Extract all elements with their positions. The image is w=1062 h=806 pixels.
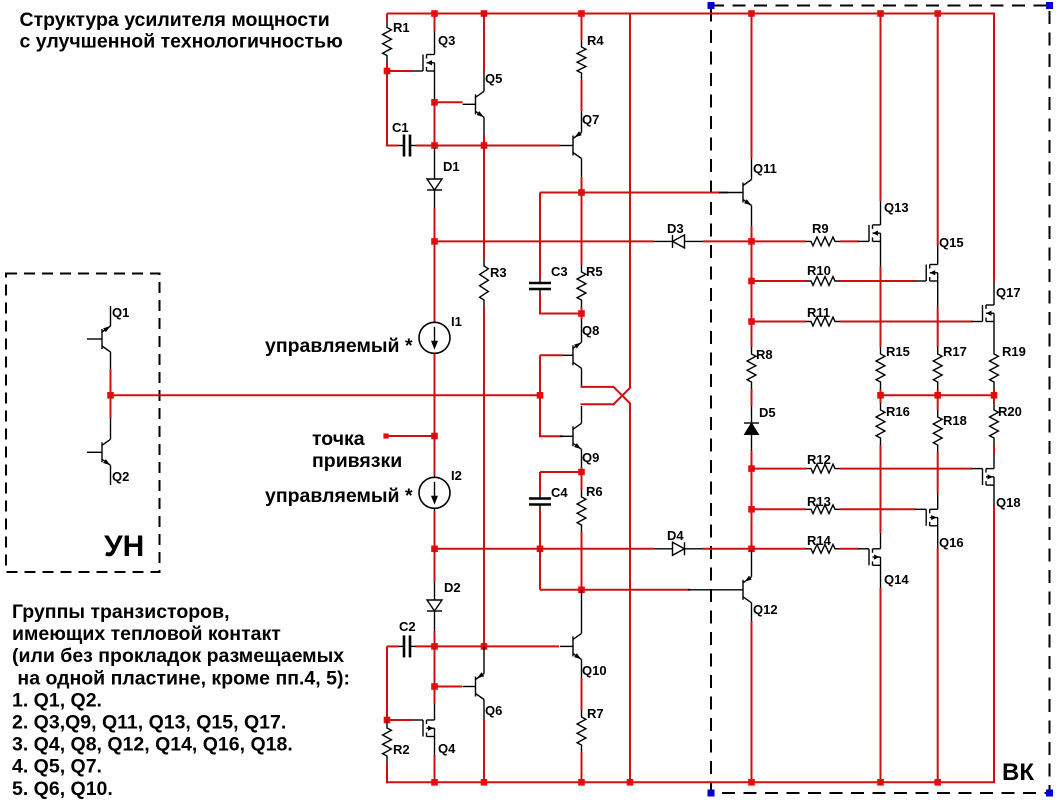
- wire bottom supply rail: [387, 781, 995, 783]
- wire R16 to Q14 drain: [880, 445, 882, 533]
- svg-text:I1: I1: [451, 314, 462, 329]
- capacitor C3: [529, 264, 568, 295]
- svg-text:C1: C1: [392, 120, 409, 135]
- resistor R8: [747, 347, 773, 389]
- wire R7 to bottom rail: [581, 752, 583, 782]
- junction Q3 source / Q5 base node: [431, 99, 438, 106]
- wire R5 to Q8 emitter node: [581, 307, 583, 314]
- svg-text:Q13: Q13: [884, 200, 909, 215]
- wire attachment node to I2: [434, 436, 436, 475]
- wire upper bias line: [435, 240, 655, 242]
- svg-text:R12: R12: [807, 452, 831, 467]
- junction R13 node: [748, 506, 755, 513]
- svg-text:R15: R15: [886, 344, 910, 359]
- junction bottom rail Q16: [934, 779, 941, 786]
- junction Q7 collector node: [578, 189, 585, 196]
- wire D1 cathode to upper bias node: [434, 208, 436, 241]
- svg-text:R1: R1: [393, 20, 410, 35]
- svg-text:2. Q3,Q9, Q11, Q13, Q15, Q17.: 2. Q3,Q9, Q11, Q13, Q15, Q17.: [12, 712, 286, 734]
- wire Q12 collector to bottom rail: [751, 621, 753, 782]
- wire node to R6: [581, 472, 583, 490]
- junction УН output: [107, 392, 114, 399]
- resistor R1: [383, 14, 410, 63]
- junction I2 lower bias node: [431, 546, 438, 553]
- svg-text:R16: R16: [886, 404, 910, 419]
- transistor Q17: [972, 282, 1021, 347]
- wire bias node to I1: [434, 241, 436, 322]
- svg-text:Q17: Q17: [996, 285, 1021, 300]
- wire R3 to Q6 node: [483, 307, 485, 646]
- wire C1 left: [387, 145, 399, 147]
- wire Q5 emitter to C1 line: [483, 136, 485, 147]
- svg-text:с улучшенной технологичностью: с улучшенной технологичностью: [20, 31, 343, 53]
- wire crossover vertical lower: [629, 404, 631, 783]
- wire Q4 source to bottom rail: [434, 755, 436, 782]
- junction R2 top Q4 gate: [384, 717, 391, 724]
- svg-text:Q4: Q4: [438, 741, 456, 756]
- resistor R7: [577, 706, 604, 752]
- svg-text:Q1: Q1: [112, 305, 129, 320]
- junction R12 node: [748, 465, 755, 472]
- svg-text:R20: R20: [998, 404, 1022, 419]
- node точка привязки label: [312, 428, 402, 472]
- capacitor C4: [529, 485, 568, 510]
- svg-text:R14: R14: [807, 533, 832, 548]
- wire C3 branch horizontal: [540, 313, 582, 315]
- junction input line: [537, 392, 544, 399]
- resistor R15: [876, 344, 910, 389]
- wire I2 to lower bias node: [434, 511, 436, 549]
- wire C2 node to Q6 base node: [434, 646, 436, 686]
- svg-text:I2: I2: [451, 468, 462, 483]
- wire R17 to mid rail: [937, 389, 939, 395]
- junction attachment point: [431, 433, 438, 440]
- transistor Q6: [463, 646, 503, 719]
- wire R8 to D5: [751, 389, 753, 406]
- transistor Q5: [463, 71, 503, 136]
- svg-text:Q16: Q16: [939, 535, 964, 550]
- junction Q6 base node: [431, 683, 438, 690]
- junction bottom rail Q12: [748, 779, 755, 786]
- resistor R9: [752, 221, 859, 246]
- svg-text:R10: R10: [807, 263, 831, 278]
- wire D5 to R12 node: [751, 451, 753, 550]
- svg-text:R2: R2: [393, 742, 410, 757]
- junction Q11 emitter node: [748, 238, 755, 245]
- transistor Q4: [412, 704, 456, 756]
- wire Q11 base line: [540, 192, 728, 194]
- svg-text:5. Q6, Q10.: 5. Q6, Q10.: [12, 778, 113, 800]
- wire Q6 base line: [435, 686, 463, 688]
- junction rail Q5: [481, 10, 488, 17]
- svg-text:R4: R4: [587, 33, 604, 48]
- wire C2 line to Q10 base: [416, 645, 560, 647]
- wire Q9 base stub: [540, 435, 563, 437]
- svg-text:Q12: Q12: [753, 602, 778, 617]
- wire Q5 base line: [435, 101, 463, 103]
- transistor Q1: [87, 305, 129, 369]
- svg-text:R11: R11: [807, 305, 830, 320]
- wire D2 to C2 line: [434, 631, 436, 646]
- transistor Q10: [560, 590, 607, 678]
- wire Q11 emitter to node: [751, 226, 753, 241]
- transistor Q3: [412, 31, 455, 100]
- resistor R16: [876, 395, 910, 445]
- wire R4 to Q7 emitter: [581, 80, 583, 111]
- wire Q9 emitter to node: [581, 467, 583, 472]
- wire lower bias to Q10 collector line corner: [539, 549, 541, 590]
- svg-text:Q9: Q9: [582, 450, 599, 465]
- junction bottom rail x630: [627, 779, 634, 786]
- svg-text:Q6: Q6: [485, 703, 502, 718]
- svg-text:R9: R9: [812, 221, 829, 236]
- crossover Q8 emitter to lower: [581, 385, 583, 387]
- svg-text:R19: R19: [1002, 344, 1026, 359]
- junction Q10 collector node: [578, 587, 585, 594]
- svg-text:УН: УН: [104, 530, 144, 563]
- junction C1 line x484: [481, 142, 488, 149]
- svg-text:1. Q1, Q2.: 1. Q1, Q2.: [12, 689, 102, 711]
- junction mid rail R15: [877, 392, 884, 399]
- crossover Q9 collector to upper: [581, 403, 614, 405]
- svg-text:4. Q5, Q7.: 4. Q5, Q7.: [12, 756, 102, 778]
- wire C4 bottom to lower bias line: [539, 509, 541, 550]
- wire Q4 gate line: [387, 719, 412, 721]
- label transistor groups note: [12, 601, 350, 800]
- resistor R14: [752, 533, 859, 553]
- svg-text:Q15: Q15: [939, 235, 964, 250]
- resistor R19: [990, 344, 1026, 389]
- transistor Q8: [560, 314, 599, 386]
- transistor Q12: [688, 550, 778, 621]
- junction bottom rail Q14: [877, 779, 884, 786]
- wire УН output to Q2: [110, 395, 112, 418]
- resistor R20: [990, 395, 1022, 445]
- block УН label: [104, 530, 144, 563]
- junction R11 node: [748, 318, 755, 325]
- svg-text:3. Q4, Q8, Q12, Q14, Q16, Q18.: 3. Q4, Q8, Q12, Q14, Q16, Q18.: [12, 734, 293, 756]
- wire Q10 collector line: [540, 589, 690, 591]
- resistor R12: [752, 452, 973, 473]
- svg-text:имеющих тепловой контакт: имеющих тепловой контакт: [12, 623, 281, 645]
- block ВК boundary dashed: [708, 2, 1054, 797]
- wire R1 bottom to C1 corner: [386, 63, 388, 147]
- junction bottom rail x434: [431, 779, 438, 786]
- wire top supply rail: [387, 13, 994, 15]
- wire Q18 source to bottom rail corner: [993, 506, 995, 783]
- transistor Q18: [972, 453, 1021, 510]
- label title: [20, 9, 343, 53]
- junction R10 node: [748, 278, 755, 285]
- resistor R17: [933, 344, 967, 389]
- wire Q5 collector to rail: [483, 14, 485, 73]
- svg-text:ВК: ВК: [1002, 759, 1034, 786]
- svg-text:Структура усилителя мощности: Структура усилителя мощности: [20, 9, 330, 31]
- junction C4 lower bias: [537, 546, 544, 553]
- svg-text:Q10: Q10: [582, 663, 607, 678]
- svg-text:C4: C4: [551, 485, 568, 500]
- junction rail Q15: [934, 10, 941, 17]
- capacitor C1: [392, 120, 416, 157]
- wire to Q4 drain: [434, 687, 436, 705]
- svg-text:C3: C3: [551, 264, 568, 279]
- wire attachment point stub: [383, 433, 434, 438]
- wire R19 to mid rail: [993, 389, 995, 395]
- junction Q8 emitter node: [578, 310, 585, 317]
- svg-text:D5: D5: [759, 405, 776, 420]
- wire Q15 drain to rail: [937, 14, 939, 247]
- transistor Q11: [719, 158, 777, 226]
- capacitor C2: [399, 619, 416, 657]
- junction R14 / Q12 emitter node: [748, 546, 755, 553]
- wire ladder node down: [751, 241, 753, 347]
- svg-text:на одной пластине, кроме пп.4,: на одной пластине, кроме пп.4, 5):: [12, 667, 350, 689]
- svg-text:Q2: Q2: [112, 469, 129, 484]
- svg-text:D2: D2: [444, 580, 461, 595]
- wire C2 corner to R2: [386, 646, 388, 721]
- wire Q7 collector to node: [581, 177, 583, 193]
- wire D3 to Q11 emitter node: [703, 240, 752, 242]
- junction rail R4: [578, 10, 585, 17]
- wire D4 to Q12 emitter node: [703, 548, 752, 550]
- svg-text:Q11: Q11: [753, 161, 777, 176]
- transistor Q7: [560, 111, 599, 177]
- svg-text:(или без прокладок размещаемых: (или без прокладок размещаемых: [12, 645, 344, 667]
- wire crossover vertical upper: [629, 14, 631, 388]
- transistor Q13: [858, 200, 909, 267]
- svg-text:Q18: Q18: [996, 495, 1021, 510]
- resistor R6: [577, 484, 603, 532]
- svg-text:R6: R6: [586, 484, 603, 499]
- wire Q8 base stub: [540, 354, 563, 356]
- resistor R3: [480, 259, 507, 307]
- svg-text:Q14: Q14: [884, 572, 909, 587]
- diode D5: [744, 405, 776, 451]
- wire input line from УН: [111, 394, 541, 396]
- junction bottom rail x484: [481, 779, 488, 786]
- junction rail Q3: [431, 10, 438, 17]
- wire C3 bottom to branch: [539, 294, 541, 315]
- wire node to R5: [581, 193, 583, 266]
- junction rail Q11: [748, 10, 755, 17]
- wire mid rail: [881, 394, 995, 396]
- wire C2 left: [387, 645, 399, 647]
- wire C3 top to Q11 base line corner: [539, 193, 541, 279]
- diode D2: [427, 549, 461, 631]
- transistor Q2: [87, 418, 129, 485]
- svg-text:D1: D1: [443, 159, 460, 174]
- junction Q9 emitter node: [578, 469, 585, 476]
- wire Q8 base ladder vertical: [539, 355, 541, 437]
- wire R15 to mid rail: [880, 389, 882, 395]
- wire R6 to Q10 collector node: [581, 532, 583, 590]
- wire Q3 source node to C1 line: [434, 102, 436, 145]
- wire Q6 collector to bottom rail: [483, 719, 485, 782]
- svg-text:управляемый *: управляемый *: [265, 485, 413, 507]
- svg-text:D4: D4: [667, 528, 684, 543]
- block ВК label: [1002, 759, 1034, 786]
- wire Q14 source to bottom rail: [880, 588, 882, 782]
- resistor R11: [752, 305, 973, 326]
- svg-text:R5: R5: [586, 264, 603, 279]
- wire Q16 source to bottom rail: [937, 548, 939, 782]
- block УН boundary dashed: [6, 274, 160, 573]
- svg-text:R7: R7: [587, 706, 604, 721]
- svg-text:C2: C2: [399, 619, 416, 634]
- junction mid rail R19: [991, 392, 998, 399]
- wire R2 to bottom rail: [386, 763, 388, 783]
- wire Q1 emitter down: [110, 369, 112, 395]
- svg-text:R3: R3: [490, 265, 507, 280]
- wire C1 line to Q7 base: [416, 145, 561, 147]
- junction bottom rail R7: [578, 779, 585, 786]
- svg-text:привязки: привязки: [312, 450, 402, 472]
- wire Q3 gate line: [387, 70, 412, 72]
- resistor R4: [577, 14, 604, 81]
- current source I2: [419, 468, 462, 511]
- transistor Q14: [858, 533, 909, 588]
- diode D4: [654, 528, 703, 555]
- junction mid rail R17: [934, 392, 941, 399]
- diode D1: [427, 148, 460, 208]
- svg-text:R8: R8: [756, 347, 773, 362]
- junction C2 line x434: [431, 643, 438, 650]
- wire lower bias line: [435, 548, 655, 550]
- svg-text:управляемый *: управляемый *: [265, 335, 413, 357]
- label управляемый I2: [265, 485, 413, 507]
- junction D1 bias node: [431, 238, 438, 245]
- wire C4 top corner: [539, 472, 541, 494]
- junction R1 / Q3 gate: [384, 68, 391, 75]
- transistor Q9: [560, 406, 599, 467]
- resistor R10: [752, 263, 916, 285]
- transistor Q16: [915, 493, 963, 550]
- svg-text:R17: R17: [943, 344, 967, 359]
- transistor Q15: [915, 235, 963, 307]
- wire Q15 source to R17: [937, 307, 939, 347]
- resistor R2: [383, 721, 410, 763]
- wire R18 to Q16 drain: [937, 452, 939, 493]
- wire I1 to attachment node: [434, 354, 436, 437]
- wire Q17 drain to rail corner: [993, 13, 995, 283]
- wire Q3 drain to rail: [434, 14, 436, 32]
- wire Q11 collector to rail: [751, 14, 753, 159]
- svg-text:Q8: Q8: [582, 323, 599, 338]
- label управляемый I1: [265, 335, 413, 357]
- svg-text:Группы транзисторов,: Группы транзисторов,: [12, 601, 229, 623]
- current source I1: [419, 314, 462, 353]
- resistor R18: [933, 395, 967, 452]
- junction rail Q13: [877, 10, 884, 17]
- svg-text:R13: R13: [807, 494, 831, 509]
- svg-text:Q5: Q5: [485, 71, 502, 86]
- wire Q13 drain to rail: [880, 14, 882, 202]
- junction C2 line x484: [481, 643, 488, 650]
- wire Q10 emitter to R7: [581, 678, 583, 710]
- diode D3: [654, 221, 703, 248]
- junction C1 line x434: [431, 142, 438, 149]
- svg-text:точка: точка: [312, 428, 365, 450]
- resistor R13: [752, 494, 916, 514]
- wire C4 branch horizontal: [540, 471, 582, 473]
- wire R20 to Q18 drain: [993, 445, 995, 453]
- wire Q13 source to R15: [880, 267, 882, 348]
- svg-text:D3: D3: [667, 221, 684, 236]
- svg-text:R18: R18: [943, 413, 967, 428]
- wire down to R3: [483, 146, 485, 260]
- resistor R5: [577, 264, 603, 307]
- svg-text:Q7: Q7: [582, 112, 599, 127]
- svg-text:Q3: Q3: [438, 33, 455, 48]
